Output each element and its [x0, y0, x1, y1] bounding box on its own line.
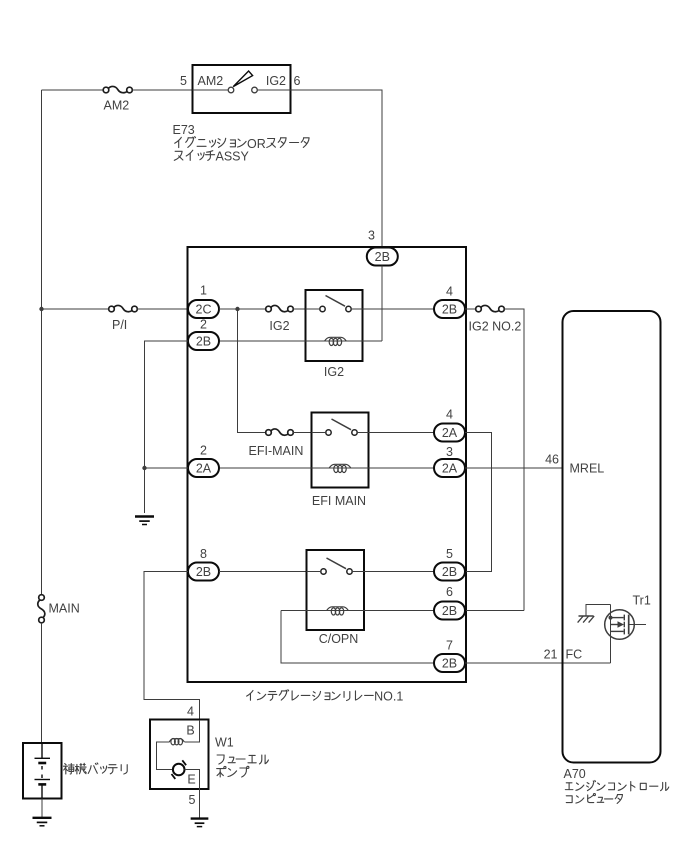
wire motor to terminal E and down — [185, 770, 200, 790]
connector pin 3 oval 2A right — [434, 459, 465, 477]
wire E73 to integration relay pin3 — [291, 90, 383, 248]
wire pump internal from pin4 — [185, 720, 200, 742]
svg-text:4: 4 — [446, 408, 453, 422]
svg-text:2: 2 — [200, 318, 207, 332]
relay EFI MAIN switch — [326, 419, 357, 435]
svg-text:MREL: MREL — [570, 461, 605, 475]
wire inside EFI box switch left — [312, 432, 326, 434]
integration relay NO.1 box — [188, 247, 467, 682]
svg-text:6: 6 — [294, 74, 301, 88]
svg-text:2A: 2A — [196, 462, 212, 476]
wire pin2 2B branch down to ground — [145, 341, 189, 513]
relay C/OPN switch — [321, 558, 352, 574]
connector pin 7 oval 2B right — [434, 654, 465, 672]
wire IG2 coil line — [219, 340, 382, 342]
ground integration relay — [135, 517, 154, 525]
chassis ground ECU — [578, 616, 595, 623]
wire EFI switch to pin4 2A — [369, 432, 435, 434]
node junction ground branch — [142, 466, 146, 470]
wire left bus vertical battery to AM2 — [41, 90, 43, 595]
wire inside E73 right — [257, 89, 290, 91]
relay C/OPN coil — [327, 607, 349, 615]
svg-text:2: 2 — [200, 444, 207, 458]
wire P/I fuse to pin 1 2C — [137, 308, 188, 310]
wire transistor gate to chassis ground — [586, 605, 611, 617]
svg-text:EFI MAIN: EFI MAIN — [312, 494, 366, 508]
svg-text:2B: 2B — [196, 335, 211, 349]
svg-text:A70: A70 — [564, 767, 586, 781]
fuse P/I — [109, 305, 138, 311]
svg-text:2B: 2B — [442, 657, 457, 671]
connector pin 2 oval 2B — [188, 332, 219, 350]
connector pin 8 oval 2B left — [188, 563, 219, 581]
label pump (Japanese) — [217, 766, 249, 777]
svg-text:8: 8 — [200, 547, 207, 561]
fuse AM2 — [103, 86, 132, 92]
svg-text:E73: E73 — [173, 123, 195, 137]
connector pin 2 oval 2A left — [188, 459, 219, 477]
label fuel (Japanese) — [217, 755, 268, 764]
label battery (Japanese) — [64, 763, 128, 774]
wire inside EFI box switch right — [357, 432, 368, 434]
svg-text:IG2 NO.2: IG2 NO.2 — [469, 320, 522, 334]
svg-text:P/I: P/I — [112, 318, 127, 332]
svg-text:IG2: IG2 — [324, 365, 344, 379]
wire EFI-MAIN fuse to EFI relay box — [293, 432, 311, 434]
wire inside E73 left — [193, 89, 229, 91]
label switch ASSY (Japanese) — [174, 150, 249, 164]
svg-text:7: 7 — [446, 638, 453, 652]
wire IG2 switch to pin 4 2B — [363, 308, 435, 310]
wire C/OPN switch to pin 5 — [364, 571, 434, 573]
wire pin6 stub — [465, 610, 524, 612]
svg-text:4: 4 — [446, 285, 453, 299]
svg-text:2B: 2B — [196, 565, 211, 579]
connector pin 4 oval 2B right — [434, 300, 465, 318]
wire pin4 2B to IG2 NO.2 fuse — [465, 308, 476, 310]
svg-text:21: 21 — [544, 648, 558, 662]
svg-text:IG2: IG2 — [269, 319, 289, 333]
svg-text:NO.1: NO.1 — [374, 690, 403, 704]
wire pin8 to C/OPN switch — [219, 571, 307, 573]
svg-text:E: E — [187, 773, 195, 787]
wire pin3 oval to IG2 coil line — [381, 266, 383, 342]
label engine control (Japanese) — [565, 781, 668, 791]
wire C/OPN coil line — [281, 610, 434, 612]
svg-text:6: 6 — [446, 585, 453, 599]
ignition switch E73 box — [193, 65, 291, 113]
wire pump to ground — [199, 789, 201, 819]
fuel pump W1 box — [150, 720, 209, 790]
label computer (Japanese) — [566, 794, 622, 804]
svg-text:2B: 2B — [442, 303, 457, 317]
relay C/OPN box — [307, 550, 365, 630]
svg-text:46: 46 — [545, 452, 559, 466]
battery symbol — [35, 743, 51, 799]
svg-text:2B: 2B — [442, 604, 457, 618]
node junction after pin 1 — [235, 307, 239, 311]
wire battery to ground — [41, 799, 43, 818]
ground battery — [33, 818, 52, 826]
wire pin3 2A to ECU MREL — [465, 467, 563, 469]
ground fuel pump — [191, 819, 209, 827]
fuse IG2 NO.2 — [476, 305, 505, 311]
wire C/OPN coil to pin 7 row — [281, 611, 434, 664]
connector pin 3 oval 2B top — [367, 248, 398, 266]
fuse EFI-MAIN — [266, 429, 294, 435]
svg-text:EFI-MAIN: EFI-MAIN — [249, 444, 304, 458]
svg-text:AM2: AM2 — [104, 99, 130, 113]
wire junction to EFI-MAIN fuse — [238, 309, 266, 433]
svg-text:4: 4 — [187, 705, 194, 719]
relay EFI MAIN box — [312, 413, 369, 488]
wire inside IG2 box switch right — [351, 308, 362, 310]
fuse IG2 — [266, 305, 294, 311]
wire MAIN fuse to battery — [41, 623, 43, 743]
label integration relay NO.1 (Japanese) — [247, 690, 404, 704]
connector pin 4 oval 2A right — [434, 424, 465, 442]
svg-text:2A: 2A — [442, 426, 458, 440]
switch contacts E73 — [228, 71, 257, 93]
wire pin7 to ECU FC — [465, 662, 611, 664]
connector pin 1 oval 2C — [188, 300, 219, 318]
relay IG2 switch — [320, 296, 351, 312]
svg-text:OR: OR — [247, 137, 266, 151]
wire inside C/OPN switch right — [352, 571, 364, 573]
relay EFI MAIN coil — [329, 464, 351, 472]
svg-text:B: B — [186, 724, 194, 738]
wire battery bus to AM2 fuse (top-left horizontal) — [42, 89, 104, 91]
relay IG2 coil — [325, 337, 347, 345]
wire FC vertical to transistor — [610, 605, 612, 664]
svg-text:2B: 2B — [442, 565, 457, 579]
wire AM2 fuse to ignition switch — [132, 89, 192, 91]
svg-text:2A: 2A — [442, 462, 458, 476]
transistor Tr1 (power MOSFET) — [605, 610, 635, 640]
wire inside IG2 box switch left — [306, 308, 320, 310]
node junction left bus / P-I — [39, 307, 43, 311]
svg-text:5: 5 — [189, 793, 196, 807]
svg-text:C/OPN: C/OPN — [319, 632, 359, 646]
svg-text:1: 1 — [200, 284, 207, 298]
pump coil (3 loops) — [169, 739, 184, 745]
relay IG2 box — [306, 290, 363, 361]
wire IG2 NO.2 fuse to pin 6 (vertical) — [504, 309, 524, 611]
wire pin4 2A loop to pin5 2B — [465, 433, 492, 572]
svg-text:5: 5 — [180, 74, 187, 88]
battery box — [23, 743, 62, 799]
svg-text:2C: 2C — [196, 303, 212, 317]
svg-text:ASSY: ASSY — [216, 150, 250, 164]
svg-text:W1: W1 — [215, 736, 234, 750]
svg-text:2B: 2B — [375, 250, 390, 264]
svg-text:AM2: AM2 — [198, 74, 224, 88]
svg-text:FC: FC — [566, 648, 583, 662]
wire EFI coil line — [219, 467, 434, 469]
svg-text:3: 3 — [446, 445, 453, 459]
wire pin1 to IG2 fuse — [219, 308, 266, 310]
wire IG2 fuse to IG2 relay box — [293, 308, 305, 310]
wire left bus to P/I fuse — [42, 308, 109, 310]
fuse MAIN — [38, 595, 45, 623]
svg-text:Tr1: Tr1 — [633, 594, 651, 608]
wire pin2 2A to ground branch — [145, 467, 189, 469]
connector pin 6 oval 2B right — [434, 602, 465, 620]
connector pin 5 oval 2B right — [434, 563, 465, 581]
wire inside C/OPN switch left — [307, 571, 321, 573]
motor M symbol — [172, 760, 187, 779]
label iginition OR starter (Japanese) — [175, 137, 309, 151]
svg-text:IG2: IG2 — [266, 74, 286, 88]
wire pump coil left to motor — [157, 742, 173, 770]
ECU A70 box — [563, 311, 661, 763]
wire transistor drain — [629, 624, 646, 626]
svg-text:3: 3 — [368, 229, 375, 243]
svg-text:MAIN: MAIN — [49, 602, 80, 616]
wire pin8 to fuel pump — [144, 572, 200, 721]
svg-text:5: 5 — [446, 547, 453, 561]
